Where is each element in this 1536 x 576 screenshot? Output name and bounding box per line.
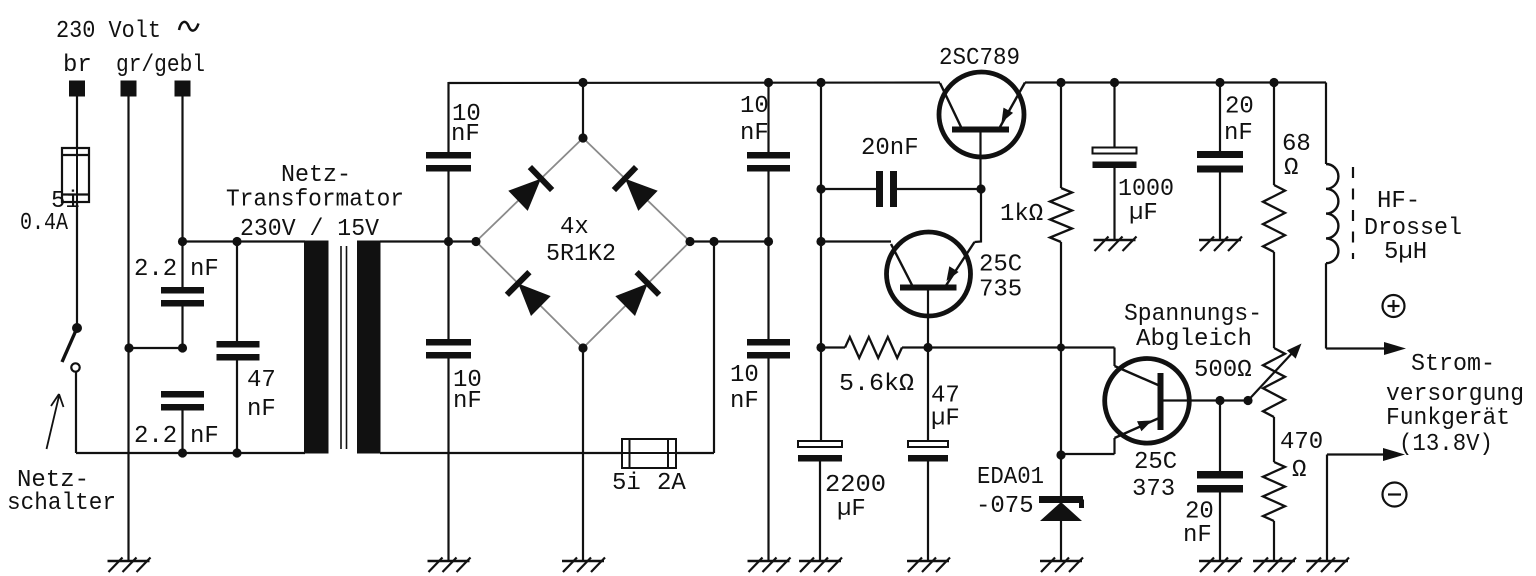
wire rail to 1000uF bbox=[1113, 82, 1115, 148]
wire Q2 to 1k node bbox=[928, 346, 1061, 348]
wire rail to 10nF TR bbox=[767, 82, 769, 152]
wire Q2 to 47uF bbox=[927, 348, 929, 442]
wire 68 to pot bbox=[1273, 252, 1275, 348]
transistor Q3 2SC373 bbox=[1105, 359, 1190, 444]
svg-text:230 Volt: 230 Volt bbox=[56, 18, 161, 45]
wire 20nF to Q1 node bbox=[897, 188, 981, 190]
wire 10nF TL bottom bbox=[447, 171, 449, 242]
diode D2 bridge top-right bbox=[625, 179, 658, 211]
arrow to switch bbox=[47, 396, 60, 449]
wire 10nF BL top bbox=[447, 242, 449, 340]
node rail bias bbox=[816, 78, 825, 87]
wire 20nF to ground bbox=[1219, 173, 1221, 241]
ground minus rail bbox=[1306, 560, 1348, 563]
svg-text:versorgung: versorgung bbox=[1386, 381, 1524, 408]
wire PE down bbox=[181, 96, 183, 242]
wire C2 to bottom bbox=[181, 411, 183, 454]
svg-text:µF: µF bbox=[1129, 200, 1158, 227]
transistor Q1 2SC789 bbox=[939, 72, 1024, 157]
capacitor C 47nF bbox=[217, 341, 260, 348]
wire 47uF to ground bbox=[927, 462, 929, 562]
node right vertex tee bbox=[709, 237, 718, 246]
node bridge left bbox=[471, 237, 480, 246]
svg-text:1000: 1000 bbox=[1118, 176, 1174, 203]
svg-text:2.2: 2.2 bbox=[134, 256, 177, 283]
svg-text:2.2: 2.2 bbox=[134, 423, 177, 450]
wire 1k to bus bbox=[1060, 242, 1062, 348]
wire zener to ground bbox=[1060, 521, 1062, 561]
capacitor C 20nF bottom bbox=[1197, 471, 1243, 479]
node bias 5.6k bbox=[816, 343, 825, 352]
wire 10nF BR top bbox=[767, 242, 769, 340]
fuse 5i 2A bbox=[622, 439, 676, 468]
svg-text:2200: 2200 bbox=[825, 472, 886, 499]
wire Q3 base to wiper bbox=[1189, 399, 1248, 401]
svg-text:10: 10 bbox=[740, 93, 769, 120]
capacitor C 10nF top-left bbox=[426, 152, 471, 159]
svg-text:nF: nF bbox=[740, 120, 769, 147]
wire bias to 2200uF bbox=[820, 348, 822, 442]
svg-text:5µH: 5µH bbox=[1384, 239, 1427, 266]
capacitor C 2.2nF upper bbox=[161, 287, 204, 294]
transformer core bbox=[340, 246, 342, 449]
wire minus output bbox=[1327, 453, 1385, 455]
svg-text:HF-: HF- bbox=[1377, 188, 1420, 215]
svg-text:nF: nF bbox=[247, 396, 276, 423]
svg-text:nF: nF bbox=[730, 388, 759, 415]
svg-text:schalter: schalter bbox=[7, 490, 116, 517]
transformer secondary winding bbox=[357, 241, 381, 454]
ground 1000uF bbox=[1094, 239, 1136, 242]
wire bus to zener node bbox=[1060, 348, 1062, 456]
wire N to ground bbox=[127, 96, 129, 561]
plus output arrow bbox=[1384, 342, 1406, 355]
node 47nF bottom bbox=[232, 448, 241, 457]
wire node to zener bbox=[1060, 455, 1062, 496]
wire 47nF bottom bbox=[236, 361, 238, 454]
wire L terminal to fuse bbox=[76, 96, 78, 148]
svg-text:gr/gebl: gr/gebl bbox=[116, 52, 205, 79]
svg-text:5i: 5i bbox=[612, 470, 641, 497]
minus symbol bbox=[1383, 483, 1407, 507]
wire rail corner to choke bbox=[1325, 83, 1327, 165]
svg-text:µF: µF bbox=[837, 496, 866, 523]
svg-text:Drossel: Drossel bbox=[1364, 215, 1462, 242]
resistor R 1kOhm bbox=[1050, 188, 1072, 242]
capacitor C 2.2nF lower bbox=[161, 391, 204, 398]
wire 10nF BL to ground bbox=[447, 358, 449, 561]
wire choke to plus output bbox=[1325, 263, 1327, 348]
svg-text:Netz-: Netz- bbox=[281, 162, 351, 189]
svg-text:25C: 25C bbox=[979, 252, 1022, 279]
resistor R 5.6kOhm bbox=[845, 337, 902, 358]
svg-text:20nF: 20nF bbox=[861, 135, 919, 162]
svg-text:nF: nF bbox=[1224, 120, 1253, 147]
wire Q2 collector up bbox=[975, 189, 982, 242]
node zener Q3 emitter bbox=[1056, 450, 1065, 459]
node rail 10nF TR bbox=[764, 78, 773, 87]
wire bias to 20nF bbox=[821, 188, 876, 190]
capacitor C 2200uF bbox=[798, 441, 842, 447]
wire bridge right to 10nF bbox=[690, 240, 769, 242]
node on N wire bbox=[124, 343, 133, 352]
node bridge right bbox=[685, 237, 694, 246]
svg-text:2A: 2A bbox=[657, 470, 686, 497]
svg-text:Ω: Ω bbox=[1284, 155, 1298, 182]
svg-text:4x: 4x bbox=[560, 214, 589, 241]
diode D3 bridge bottom-left bbox=[518, 284, 551, 317]
node rail 68 bbox=[1269, 78, 1278, 87]
svg-text:500Ω: 500Ω bbox=[1194, 357, 1252, 384]
svg-text:Abgleich: Abgleich bbox=[1136, 326, 1252, 353]
wire rail to 1k bbox=[1060, 82, 1062, 188]
node secondary top cap bbox=[444, 237, 453, 246]
wire 47nF top bbox=[236, 242, 238, 342]
inductor HF-Drossel 5uH bbox=[1326, 164, 1338, 263]
svg-text:nF: nF bbox=[190, 256, 219, 283]
wire rail to 20nF bbox=[1219, 82, 1221, 151]
transformer primary winding bbox=[304, 241, 329, 454]
svg-text:Spannungs-: Spannungs- bbox=[1124, 301, 1262, 328]
capacitor C 20nF right bbox=[1197, 151, 1243, 158]
svg-text:EDA01: EDA01 bbox=[977, 464, 1044, 491]
node 10nF mid right bbox=[764, 237, 773, 246]
node 47nF top bbox=[232, 237, 241, 246]
ground 10nF BR bbox=[748, 560, 790, 563]
diode D1 bridge top-left bbox=[508, 179, 541, 211]
node bias 20nF bbox=[816, 184, 825, 193]
ground 10nF BL bbox=[428, 560, 470, 563]
wire bus corner to Q3 bbox=[1113, 348, 1115, 367]
wire secondary top bbox=[380, 240, 476, 242]
wire 20nF bottom to ground bbox=[1219, 493, 1221, 562]
svg-text:20: 20 bbox=[1225, 94, 1254, 121]
pot wiper arrow bbox=[1248, 350, 1295, 401]
svg-text:br: br bbox=[63, 52, 92, 79]
node rail 1k bbox=[1056, 78, 1065, 87]
node PE top wire bbox=[178, 237, 187, 246]
fuse 5i 0.4A bbox=[62, 148, 89, 202]
svg-text:Transformator: Transformator bbox=[226, 187, 404, 214]
diode D4 bridge bottom-right bbox=[615, 284, 648, 317]
wire 10nF TR bottom bbox=[767, 171, 769, 242]
choke core dashed bbox=[1352, 167, 1354, 259]
resistor R 68Ohm bbox=[1263, 185, 1285, 252]
wire mid node to N bbox=[129, 347, 183, 349]
svg-text:470: 470 bbox=[1280, 429, 1323, 456]
svg-text:0.4A: 0.4A bbox=[20, 210, 68, 237]
node rail 20nF bbox=[1215, 78, 1224, 87]
transistor Q2 2SC735 bbox=[887, 232, 971, 316]
capacitor C 20nF coupling bbox=[876, 171, 883, 207]
ground 20nF bottom bbox=[1199, 560, 1241, 563]
node Q3 20nF bbox=[1215, 396, 1224, 405]
svg-text:nF: nF bbox=[190, 423, 219, 450]
wire node to 20nF bottom bbox=[1219, 401, 1221, 472]
bridge rectifier edges bbox=[476, 138, 690, 348]
wire bridge top to rail bbox=[582, 82, 584, 138]
ground 2200uF bbox=[799, 560, 841, 563]
resistor R 470Ohm bbox=[1263, 462, 1285, 521]
wire bias to Q2 collector bbox=[821, 240, 891, 242]
node C2 bottom bbox=[178, 448, 187, 457]
ground zener bbox=[1040, 560, 1082, 563]
wire bias vertical upper bbox=[820, 82, 822, 189]
wire right vertex riser bbox=[713, 242, 715, 454]
wire switch to bottom bbox=[75, 372, 77, 453]
capacitor C 47uF bbox=[908, 441, 948, 447]
terminal N (gr) bbox=[121, 81, 137, 97]
wire bias to 5.6k bbox=[821, 346, 845, 348]
wire 1000uF to ground bbox=[1113, 168, 1115, 240]
wire bus to Q3 bbox=[1061, 346, 1115, 348]
node mid caps bbox=[178, 343, 187, 352]
wire 10nF BR to ground bbox=[767, 358, 769, 561]
ground 47uF bbox=[907, 560, 949, 563]
node bridge rail bbox=[578, 78, 587, 87]
ground N wire bbox=[108, 560, 150, 563]
wire bridge bottom to ground bbox=[582, 348, 584, 561]
minus output arrow bbox=[1383, 448, 1405, 461]
svg-text:10: 10 bbox=[730, 362, 759, 389]
switch Netzschalter bbox=[72, 323, 82, 333]
svg-text:nF: nF bbox=[1183, 522, 1212, 549]
svg-text:25C: 25C bbox=[1134, 449, 1177, 476]
svg-text:nF: nF bbox=[451, 121, 480, 148]
wire C1 to mid node bbox=[181, 307, 183, 349]
node Q2 emitter 5.6k bbox=[923, 343, 932, 352]
node rail 1000uF bbox=[1110, 78, 1119, 87]
svg-text:nF: nF bbox=[453, 388, 482, 415]
svg-text:47: 47 bbox=[247, 367, 276, 394]
capacitor C 10nF top-right bbox=[747, 152, 790, 159]
svg-text:-075: -075 bbox=[976, 493, 1034, 520]
terminal L (br) bbox=[69, 81, 85, 97]
ground 470 bbox=[1253, 560, 1295, 563]
node bridge top bbox=[578, 133, 587, 142]
wire top rail left bbox=[449, 81, 941, 84]
wire node to C1 bbox=[181, 242, 183, 288]
svg-text:735: 735 bbox=[979, 277, 1022, 304]
capacitor C 10nF bottom-left bbox=[426, 339, 471, 346]
wire fuse to switch bbox=[76, 202, 78, 324]
svg-text:230V / 15V: 230V / 15V bbox=[240, 216, 380, 243]
wire top rail right bbox=[1025, 81, 1326, 83]
wire rail to 68 bbox=[1273, 82, 1275, 185]
potentiometer 500Ohm bbox=[1263, 348, 1285, 417]
wire 5.6k to Q2 bbox=[902, 346, 928, 348]
svg-text:Funkgerät: Funkgerät bbox=[1386, 405, 1510, 432]
svg-text:Strom-: Strom- bbox=[1411, 351, 1495, 378]
wire bias vertical mid bbox=[820, 189, 822, 348]
svg-text:Ω: Ω bbox=[1292, 457, 1306, 484]
ground 20nF right bbox=[1199, 239, 1241, 242]
node wiper bbox=[1243, 396, 1252, 405]
svg-text:(13.8V): (13.8V) bbox=[1399, 431, 1493, 458]
svg-text:68: 68 bbox=[1282, 131, 1311, 158]
wire primary top bbox=[183, 240, 306, 242]
svg-text:µF: µF bbox=[931, 406, 960, 433]
node Q1 emitter junction bbox=[976, 184, 985, 193]
wire Q3 emitter bbox=[1061, 453, 1115, 455]
capacitor C 1000uF bbox=[1093, 148, 1137, 154]
node bias Q2 bbox=[816, 237, 825, 246]
wire pot to 470 bbox=[1273, 417, 1275, 462]
svg-text:2SC789: 2SC789 bbox=[939, 45, 1020, 72]
svg-text:5R1K2: 5R1K2 bbox=[546, 241, 616, 268]
svg-text:373: 373 bbox=[1132, 476, 1175, 503]
ground bridge bbox=[562, 560, 604, 563]
capacitor C 10nF bottom-right bbox=[747, 339, 790, 346]
terminal PE (gebl) bbox=[175, 81, 191, 97]
zener diode EDA01-075 bbox=[1039, 496, 1083, 503]
wire 470 to ground bbox=[1273, 521, 1275, 561]
plus symbol bbox=[1383, 295, 1405, 317]
wire 2200uF to ground bbox=[819, 462, 821, 562]
node bridge bottom bbox=[578, 343, 587, 352]
svg-text:5.6kΩ: 5.6kΩ bbox=[839, 371, 914, 398]
wire secondary bottom bbox=[380, 452, 714, 454]
svg-text:1kΩ: 1kΩ bbox=[1000, 201, 1043, 228]
node bus 1k bbox=[1057, 344, 1065, 352]
